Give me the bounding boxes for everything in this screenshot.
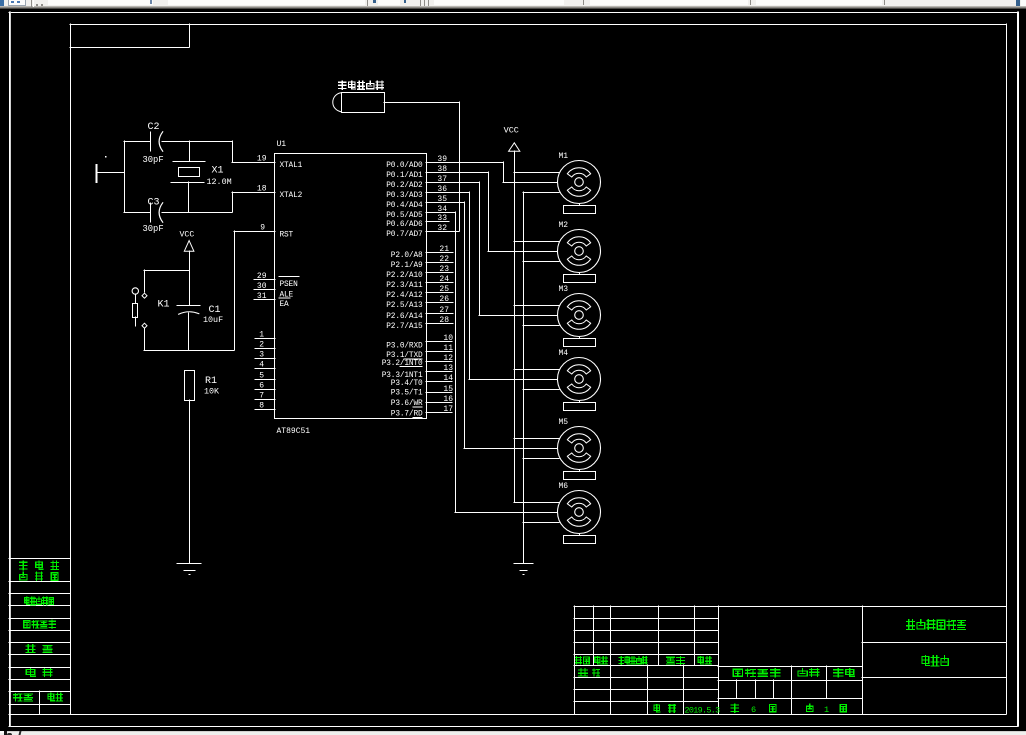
svg-text:P3.4/T0: P3.4/T0 <box>391 380 423 388</box>
svg-text:31: 31 <box>257 292 267 301</box>
svg-text:7: 7 <box>259 392 264 401</box>
svg-text:M5: M5 <box>559 418 569 427</box>
cell text 签字 <box>26 645 52 653</box>
svg-text:P2.5/A13: P2.5/A13 <box>386 302 423 310</box>
svg-text:36: 36 <box>437 185 447 194</box>
svg-text:19: 19 <box>257 155 267 164</box>
motor M3 <box>558 294 601 337</box>
cell text 描图/日期 <box>14 693 63 701</box>
value 30pF (C3) <box>143 224 164 234</box>
VCC symbol (motors) <box>509 143 520 502</box>
terminal plate M5 <box>564 469 596 479</box>
svg-text:P2.4/A12: P2.4/A12 <box>386 292 423 300</box>
label M6 <box>559 482 569 491</box>
svg-text:R1: R1 <box>205 376 217 387</box>
svg-text:X1: X1 <box>212 165 224 176</box>
svg-text:30pF: 30pF <box>143 155 164 165</box>
crystal X1 <box>171 141 205 212</box>
pin 18 number <box>257 185 267 194</box>
svg-text:M4: M4 <box>559 349 569 358</box>
terminal plate M1 <box>564 203 596 213</box>
svg-text:24: 24 <box>439 275 449 284</box>
capacitor C3 <box>151 203 163 222</box>
svg-text:30pF: 30pF <box>143 224 164 234</box>
svg-text:XTAL1: XTAL1 <box>280 162 303 170</box>
svg-text:P0.4/AD4: P0.4/AD4 <box>386 202 423 210</box>
svg-text:6: 6 <box>751 705 756 715</box>
pin numbers 1-8 <box>259 331 264 411</box>
label M3 <box>559 285 569 294</box>
svg-text:17: 17 <box>443 405 453 414</box>
pin 19 number <box>257 155 267 164</box>
wire left vertical <box>124 141 126 212</box>
stray dot <box>105 156 107 158</box>
bottom row 日期 2019.5.3 <box>654 705 676 713</box>
svg-text:M1: M1 <box>559 152 569 161</box>
pin label XTAL1 <box>280 162 303 170</box>
svg-text:22: 22 <box>439 255 449 264</box>
label K1 <box>158 299 170 310</box>
wire XTAL bottom <box>124 192 275 213</box>
svg-text:P0.3/AD3: P0.3/AD3 <box>386 192 423 200</box>
label C1 <box>209 305 221 316</box>
svg-text:C3: C3 <box>148 198 160 209</box>
svg-text:38: 38 <box>437 165 447 174</box>
motor M4 <box>558 358 601 401</box>
svg-text:VCC: VCC <box>180 231 195 240</box>
svg-text:2: 2 <box>259 341 264 350</box>
label M5 <box>559 418 569 427</box>
header 图样标记 重量 比例 <box>733 669 854 677</box>
svg-text:33: 33 <box>437 214 447 223</box>
wire P0.5 to M6 <box>455 212 557 513</box>
pin label EA (overline) <box>279 298 290 309</box>
svg-text:26: 26 <box>439 295 449 304</box>
P2 pin stubs 21-28 <box>426 253 453 324</box>
resistor R1 <box>185 371 195 564</box>
svg-text:AT89C51: AT89C51 <box>277 427 311 436</box>
label C2 <box>148 122 160 133</box>
bottom layout-tab sliver <box>0 731 1026 735</box>
P3 pin numbers <box>443 334 453 414</box>
P3 port labels (with active-low underlines) <box>382 343 423 419</box>
value 30pF (C2) <box>143 155 164 165</box>
svg-text:25: 25 <box>439 285 449 294</box>
svg-text:8: 8 <box>259 402 264 411</box>
svg-text:10uF: 10uF <box>203 315 223 325</box>
svg-text:VCC: VCC <box>504 126 519 136</box>
toolbar sliver (top of CAD window) <box>0 0 1026 9</box>
row label 设计 <box>579 669 600 676</box>
label U1 <box>277 140 287 149</box>
svg-text:10: 10 <box>443 334 453 343</box>
VCC symbol (reset) <box>184 241 194 305</box>
svg-text:2019.5.3: 2019.5.3 <box>685 706 721 716</box>
svg-text:9: 9 <box>260 224 265 233</box>
terminal plate M4 <box>564 400 596 410</box>
pins 1-8 stubs <box>255 339 275 410</box>
label M2 <box>559 221 569 230</box>
pins 29,30,31 stubs <box>254 280 275 300</box>
label 光电传感器 <box>339 81 384 89</box>
svg-text:3: 3 <box>259 351 264 360</box>
wire sensor to P0.7 <box>384 102 460 231</box>
svg-text:1: 1 <box>259 331 264 340</box>
P3 pin stubs 10-17 <box>426 342 452 413</box>
wire P0.3 to M4 <box>469 192 557 380</box>
svg-text:P2.0/A8: P2.0/A8 <box>391 252 423 260</box>
svg-text:6: 6 <box>259 382 264 391</box>
svg-text:27: 27 <box>439 306 449 315</box>
ground bus wire <box>523 192 559 563</box>
svg-text:10K: 10K <box>204 386 220 396</box>
svg-text:21: 21 <box>439 245 449 254</box>
label C3 <box>148 198 160 209</box>
drawing name 电路图 <box>922 656 948 666</box>
cell text 底图总号 <box>24 620 56 628</box>
header 标记 处数 更改文件名 签字 日期 <box>576 657 712 665</box>
wire P0.0 to M1 <box>503 162 557 183</box>
cell text 旧底图总号 <box>25 597 54 605</box>
P0 port labels <box>386 162 423 239</box>
svg-text:37: 37 <box>437 175 447 184</box>
svg-text:XTAL2: XTAL2 <box>280 192 303 200</box>
motor M1 <box>558 161 601 204</box>
svg-text:K1: K1 <box>158 299 170 310</box>
capacitor C1 <box>177 306 200 351</box>
wire XTAL top <box>124 141 275 163</box>
svg-text:P2.1/A9: P2.1/A9 <box>391 262 423 270</box>
svg-text:C2: C2 <box>148 122 160 133</box>
P0 pin stubs 39-32 <box>426 163 503 232</box>
svg-text:28: 28 <box>439 316 449 325</box>
ground (R1) <box>177 564 201 576</box>
value 10uF <box>203 315 223 325</box>
wire reset bottom / RST to pin9 <box>144 231 275 351</box>
svg-text:14: 14 <box>443 374 453 383</box>
P0 pin numbers <box>437 155 447 233</box>
pin 9 number <box>260 224 265 233</box>
svg-text:15: 15 <box>443 385 453 394</box>
top-left title strip box <box>70 24 190 48</box>
title block frame <box>574 606 1006 714</box>
svg-text:29: 29 <box>257 272 267 281</box>
value 10K <box>204 386 220 396</box>
terminal plate M2 <box>564 272 596 282</box>
label X1 <box>212 165 224 176</box>
svg-text:EA: EA <box>280 301 290 309</box>
svg-text:M6: M6 <box>559 482 569 491</box>
svg-text:13: 13 <box>443 364 453 373</box>
terminal plate M6 <box>564 533 596 543</box>
pin label XTAL2 <box>280 192 303 200</box>
pin label RST <box>280 231 294 239</box>
label VCC (reset) <box>180 231 195 240</box>
cell text 日期 <box>26 669 52 677</box>
motor M2 <box>558 230 601 273</box>
svg-text:4: 4 <box>259 361 264 370</box>
svg-text:M2: M2 <box>559 221 569 230</box>
wire reset top branch <box>144 270 189 292</box>
op: chip body U1 AT89C51 <box>275 154 427 419</box>
svg-text:P0.1/AD1: P0.1/AD1 <box>386 172 423 180</box>
capacitor C2 <box>151 132 163 151</box>
motor M6 <box>558 491 601 534</box>
svg-text:16: 16 <box>443 395 453 404</box>
label M4 <box>559 349 569 358</box>
motor M5 <box>558 427 601 470</box>
pin numbers 29,30,31 <box>257 272 267 301</box>
svg-text:P3.3/1NT1: P3.3/1NT1 <box>382 372 423 380</box>
wire P0.2 to M3 <box>479 182 557 316</box>
svg-text:P3.0/RXD: P3.0/RXD <box>386 343 423 351</box>
left margin record cells <box>9 559 70 715</box>
P2 pin numbers <box>439 245 449 325</box>
bottom 共6张 第1张 <box>731 704 776 715</box>
label VCC (motors) <box>504 126 519 136</box>
svg-text:12.0M: 12.0M <box>207 177 232 187</box>
wire P0.1 to M2 <box>488 172 557 252</box>
svg-text:35: 35 <box>437 195 447 204</box>
svg-text:11: 11 <box>443 344 453 353</box>
svg-text:U1: U1 <box>277 140 287 149</box>
ground stub left <box>97 165 125 182</box>
terminal plate M3 <box>564 336 596 346</box>
svg-text:P0.6/AD6: P0.6/AD6 <box>386 221 423 229</box>
svg-text:P2.3/A11: P2.3/A11 <box>386 282 423 290</box>
school name 浙江理工大学 <box>907 620 966 630</box>
svg-text:P3.5/T1: P3.5/T1 <box>391 390 423 398</box>
pin label PSEN (overline) <box>279 277 299 290</box>
value 12.0M <box>207 177 232 187</box>
P2 port labels <box>386 252 423 331</box>
svg-text:P2.7/A15: P2.7/A15 <box>386 323 423 331</box>
VCC taps to motor + terminals <box>514 173 559 503</box>
svg-text:M3: M3 <box>559 285 569 294</box>
svg-text:1: 1 <box>824 705 829 715</box>
svg-text:RST: RST <box>280 231 294 239</box>
svg-text:23: 23 <box>439 265 449 274</box>
svg-text:18: 18 <box>257 185 267 194</box>
cell text 借(通)用件登记 <box>20 561 59 580</box>
photoelectric sensor body <box>333 93 385 113</box>
svg-text:P0.7/AD7: P0.7/AD7 <box>386 231 423 239</box>
svg-text:PSEN: PSEN <box>280 281 299 289</box>
svg-text:39: 39 <box>437 155 447 164</box>
svg-text:P2.2/A10: P2.2/A10 <box>386 272 423 280</box>
wire P0.4 to M5 <box>464 202 557 449</box>
ground (motor bus) <box>514 564 533 576</box>
pin label ALE <box>280 292 294 300</box>
svg-text:5: 5 <box>259 372 264 381</box>
label M1 <box>559 152 569 161</box>
switch K1 <box>132 288 147 350</box>
svg-text:P0.0/AD0: P0.0/AD0 <box>386 162 423 170</box>
svg-text:P0.5/AD5: P0.5/AD5 <box>386 212 423 220</box>
svg-text:P0.2/AD2: P0.2/AD2 <box>386 182 423 190</box>
svg-text:12: 12 <box>443 354 453 363</box>
svg-text:P2.6/A14: P2.6/A14 <box>386 313 423 321</box>
label R1 <box>205 376 217 387</box>
svg-text:34: 34 <box>437 205 447 214</box>
label AT89C51 <box>277 427 311 436</box>
svg-text:30: 30 <box>257 282 267 291</box>
svg-text:32: 32 <box>437 224 447 233</box>
